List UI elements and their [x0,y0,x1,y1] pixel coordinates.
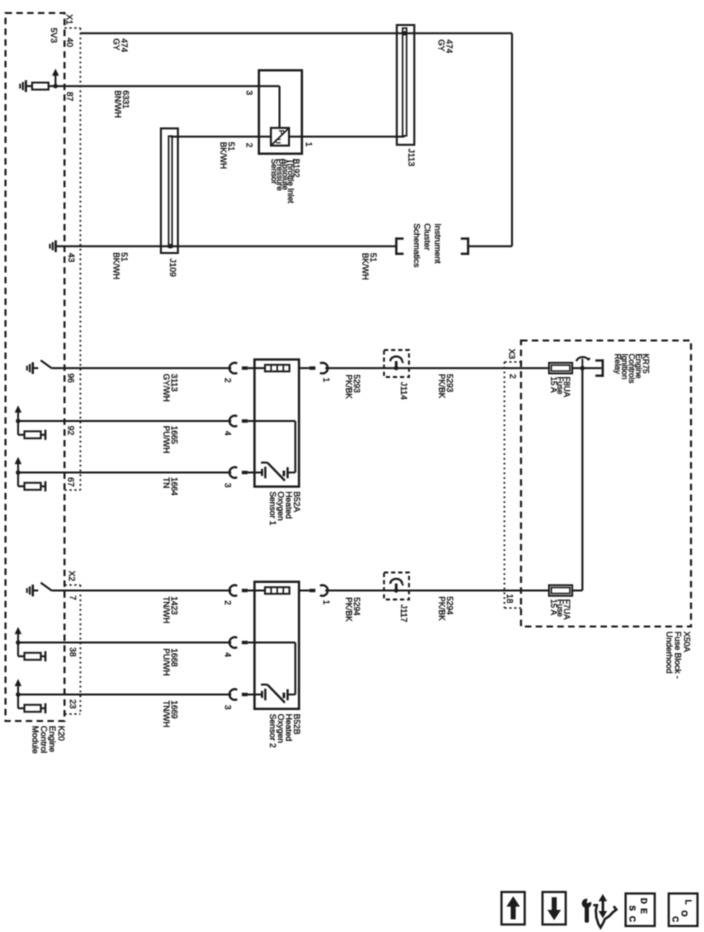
wire 474 GY from X1:40 to J113 and right [80,32,512,34]
relay feed stub up [581,359,583,368]
icon up-arrow button [502,892,525,925]
in-line connector J117 symbol [390,579,403,593]
svg-text:E: E [639,908,648,914]
svg-text:2: 2 [508,374,518,379]
sensor B52A box [255,360,300,487]
in-line connector J114 symbol [390,356,403,370]
wire 1668 PU/WH [18,642,231,644]
connector half B52B pin 2 [229,585,247,596]
connector X2 bottom cap [65,713,81,715]
bus F8UA to F7UA [581,368,583,590]
wire 1665 PU/WH [18,420,231,422]
wire B52B heater to pin 1 [299,590,309,592]
wire 51 BK/WH J109 to B192 pin 2 [170,136,271,138]
junction pin 23 [16,692,21,697]
connector half B52B pin 3 [229,689,247,700]
junction pin 38 [16,640,21,645]
wire B192 pin1 474 GY to J113 [289,136,405,138]
connector half B52A pin 4 [229,416,247,427]
icon LOC button [669,894,698,927]
resistor in ECM pin 87 [32,83,48,90]
connector X1 bottom cap [65,489,81,491]
wire fuse F7UA to bus [572,590,582,592]
junction pin 87 [53,84,58,89]
voltage arrow pin 92 [15,405,22,434]
wire ground to resistor [26,85,32,87]
svg-text:J113: J113 [407,149,417,167]
fuse block X50A box (dashed) [521,341,691,627]
connector X1 top cap [65,27,81,29]
connector X2 dotted line [79,585,81,714]
sensor B192 box [259,70,302,153]
svg-text:2: 2 [245,143,255,148]
svg-text:C: C [670,916,679,922]
ground stub 7 [33,590,38,592]
svg-text:40: 40 [65,38,75,48]
ground at X1:87 [20,80,26,92]
svg-text:18: 18 [505,594,515,604]
wire 474 GY to instrument cluster bracket [468,245,512,247]
wire into B52B pin 3 [248,694,262,696]
svg-text:C: C [627,916,636,922]
ground at X1:43 [50,240,56,252]
svg-text:3: 3 [223,483,233,488]
wire B52A heater to pin 1 [299,367,309,369]
svg-text:1: 1 [321,600,331,605]
resistor pin 92 [18,430,45,440]
svg-text:U: U [274,139,283,144]
sensor B52B box [255,582,300,709]
ground stub 96 [33,367,38,369]
wire into B52A pin 2 [248,367,265,369]
in-line connector J117 box [384,573,409,600]
svg-text:96: 96 [66,373,76,383]
wire 51 BK/WH from X1:43 to bracket [56,245,397,247]
svg-text:92: 92 [66,426,76,436]
svg-text:X3: X3 [507,349,517,360]
wire 5293 PK/BK to J114 [325,367,549,369]
connector half B52A pin 1 [309,363,327,374]
svg-text:1: 1 [321,378,331,383]
voltage arrow pin 67 [15,457,22,486]
zirconia cell B52B [261,685,295,703]
wire into B52B pin 4 [248,642,295,644]
svg-text:43: 43 [66,253,76,263]
svg-text:67: 67 [66,477,76,487]
heater element B52A [265,365,289,372]
voltage arrow pin 87 [52,69,59,87]
svg-text:L: L [683,900,692,905]
resistor pin 38 [18,651,45,661]
junction pin 67 [16,470,21,475]
relay blade curl [576,357,590,361]
voltage arrow pin 23 [15,679,22,708]
splice pack J109 outer [161,128,178,253]
svg-text:O: O [679,910,688,917]
svg-text:X1: X1 [65,14,75,25]
fuse F7UA [549,585,572,596]
wire 5294 PK/BK to J117 [325,590,549,592]
svg-text:38: 38 [68,647,78,657]
icon down-arrow button [543,892,566,925]
bracket to KR75 relay [595,359,602,377]
pressure transducer square [271,128,289,146]
connector X2 top cap [65,584,81,586]
connector X3 dotted line [503,362,505,608]
svg-text:J109: J109 [168,258,178,277]
svg-text:2: 2 [223,600,233,605]
svg-text:J117: J117 [399,604,409,622]
connector half B52A pin 2 [229,363,247,374]
svg-text:1: 1 [304,142,314,147]
connector X3 bottom cap [504,607,521,609]
svg-text:3: 3 [223,705,233,710]
splice pack J109 bus [169,136,173,247]
svg-text:D: D [639,898,648,904]
wire B52A internal down [294,421,296,473]
wire 6331 BN/WH to B192 pin 3 [56,85,280,87]
wire 6331 BN/WH drop inside B192 [279,86,281,128]
voltage arrow pin 38 [15,627,22,656]
connector X1 dotted line [79,28,81,490]
wire into B52B pin 2 [248,590,265,592]
junction on J113 bus top [402,31,407,36]
icon DESC button [626,894,655,927]
svg-text:P: P [277,130,286,135]
switch blade 7 [41,583,52,591]
wire fuse F8UA to relay [572,367,601,369]
wire 1423 TN/WH [52,590,231,592]
off-page bracket right [461,237,468,255]
in-line connector J114 box [384,350,409,377]
wire B52B internal down [294,643,296,695]
wire resistor to junction [49,85,56,87]
svg-text:4: 4 [223,652,233,657]
resistor pin 67 [18,481,45,491]
splice pack J113 bus [403,28,407,136]
svg-text:X2: X2 [67,571,77,582]
svg-text:7: 7 [68,595,78,600]
svg-text:3: 3 [245,90,255,95]
svg-text:4: 4 [223,431,233,436]
icon wrench [582,895,595,923]
connector half B52A pin 3 [229,467,247,478]
resistor pin 23 [18,703,45,713]
wire into B52A pin 3 [248,472,262,474]
connector half B52B pin 1 [309,585,327,596]
fuse F8UA [549,363,572,374]
icon branch arrows [593,894,616,928]
ground at X2:7 [27,585,33,597]
svg-text:5V3: 5V3 [49,28,59,43]
wire vertical 474 GY down at right [511,33,513,246]
svg-text:23: 23 [68,699,78,709]
junction fuse output [580,366,585,371]
splice pack J113 outer [397,25,415,145]
wire into B52A pin 4 [248,420,295,422]
wire 3113 GY/WH [52,367,231,369]
junction on J109 bus bottom [168,244,173,249]
junction pin 92 [16,419,21,424]
switch blade 96 [41,360,52,368]
connector X3 top cap [504,361,521,363]
transducer diagonal [272,129,289,145]
ground at X1:96 [27,362,33,374]
wire 1669 TN/WH [18,694,231,696]
svg-text:S: S [627,905,636,911]
svg-text:J114: J114 [399,382,409,400]
connector half B52B pin 4 [229,637,247,648]
svg-text:87: 87 [65,92,75,102]
wire 1664 TN [18,472,231,474]
off-page bracket left [396,237,403,255]
heater element B52B [265,587,289,594]
ECM K20 module box (dashed) [6,13,65,721]
zirconia cell B52A [261,463,295,481]
svg-text:2: 2 [223,378,233,383]
